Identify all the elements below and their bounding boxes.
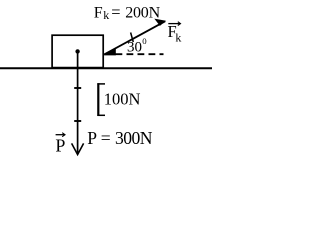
wire P shaft [77,51,79,153]
svg-text:200N: 200N [125,5,160,22]
svg-text:P: P [55,136,65,156]
center-of-mass dot [75,49,79,53]
svg-text:30: 30 [127,39,142,55]
ground [0,67,212,69]
angle wedge [104,48,116,55]
arrowhead P [72,143,84,154]
svg-text:P =: P = [87,128,111,148]
svg-text:100N: 100N [104,90,141,109]
svg-text:300N: 300N [115,128,153,148]
dashed horizontal line [116,53,164,55]
arrowhead Fk [154,19,166,26]
svg-text:F: F [94,5,103,22]
svg-text:=: = [111,3,120,22]
tick 200N on P [74,120,81,122]
svg-text:k: k [103,8,109,22]
svg-text:k: k [175,31,181,45]
bracket 100N scale [97,83,99,116]
tick 100N on Fk [131,33,134,43]
block [52,35,103,67]
force line Fk [104,21,165,54]
svg-text:0: 0 [142,36,147,46]
tick 100N on P [74,87,81,89]
